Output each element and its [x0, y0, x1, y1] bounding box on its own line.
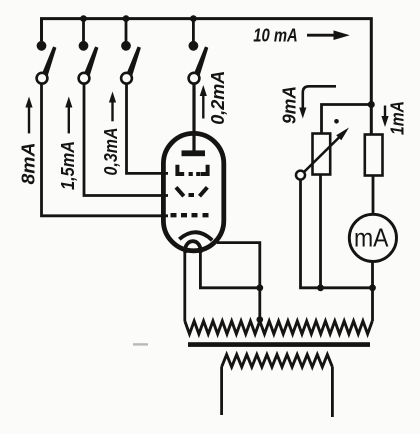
potentiometer R1 body [313, 134, 331, 175]
arrow 8mA [25, 97, 32, 134]
cathode [179, 232, 212, 240]
wire S3 to grid3 [127, 84, 169, 174]
wire heater right leg down [200, 253, 259, 288]
wire W2 left lead [220, 367, 223, 415]
wire R2 top [370, 105, 373, 135]
wire S4 to anode [192, 84, 195, 151]
wire stub S3 [125, 19, 128, 42]
node bus-S4 [190, 15, 197, 22]
node pot bottom junction [317, 284, 324, 291]
switch S2 [79, 41, 98, 84]
grid g1 [171, 213, 209, 217]
arrow 1mA [381, 106, 388, 128]
grid g3 [177, 165, 207, 174]
arrow 10mA [307, 30, 350, 40]
winding W1 (upper) [185, 321, 372, 334]
anode plate [182, 150, 206, 156]
arrow 9mA [299, 86, 336, 118]
transformer core bar [188, 342, 370, 347]
node meter bottom junction [369, 284, 376, 291]
wire S1 to grid1 [42, 84, 169, 216]
svg-text:0,2mA: 0,2mA [208, 71, 228, 125]
wire wiper down and across [301, 180, 373, 287]
wire S2 to grid2 [84, 84, 168, 196]
switch S4 [189, 41, 208, 84]
speck [334, 119, 339, 124]
wire top bus [42, 19, 372, 105]
node cathode-heater junction [256, 284, 263, 291]
wire R2 to meter [372, 176, 375, 215]
node bus-S3 [123, 15, 130, 22]
svg-text:10 mA: 10 mA [253, 26, 298, 46]
node pot branch [368, 101, 375, 108]
arrow 1,5mA [65, 97, 72, 134]
switch S3 [121, 41, 140, 84]
meter mA [349, 214, 396, 261]
node bus-S2 [80, 15, 87, 22]
wire W2 right lead [331, 367, 334, 417]
svg-text:mA: mA [354, 223, 389, 253]
wire stub S2 [82, 19, 85, 42]
svg-text:8mA: 8mA [19, 143, 39, 185]
winding W2 (lower) [222, 355, 333, 368]
svg-text:1,5mA: 1,5mA [58, 141, 78, 190]
wire meter down [371, 262, 374, 322]
wire top to pot branch [322, 105, 373, 134]
svg-text:1mA: 1mA [388, 101, 408, 135]
arrow 0,2mA [200, 85, 207, 119]
potentiometer wiper arrow [305, 128, 350, 172]
faint mark left of core [133, 343, 148, 345]
node on winding tap [257, 316, 264, 323]
svg-text:9mA: 9mA [280, 86, 300, 124]
svg-text:0,3mA: 0,3mA [101, 128, 121, 176]
wire pot bottom down [319, 175, 322, 288]
wire stub S4 [192, 19, 195, 42]
potentiometer wiper terminal [296, 171, 305, 180]
wire heater left leg down [183, 253, 186, 321]
grid g2 [176, 187, 207, 196]
vacuum tube V1 envelope [163, 133, 223, 250]
resistor R2 body [365, 135, 383, 176]
heater filament [185, 241, 200, 253]
wire cathode to junction [217, 243, 260, 321]
switch S1 [37, 41, 56, 84]
arrow 0,3mA [109, 92, 116, 122]
